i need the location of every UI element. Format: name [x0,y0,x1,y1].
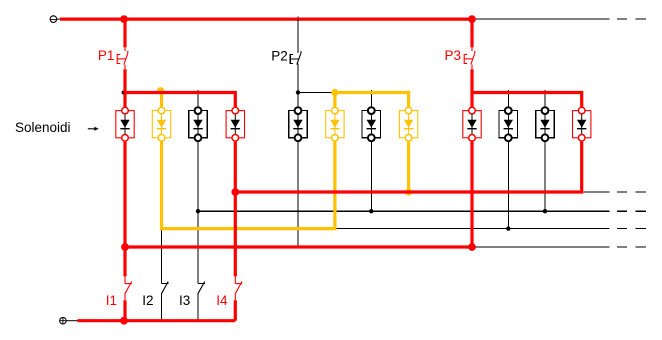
junction: top bus / P1 [120,15,128,23]
solenoid diode module D21 [289,107,307,141]
junction: row net 2 / switch I3 column [196,209,200,213]
wire: row net 4 (red) [125,245,472,248]
junction: row net 1 / module D24 (yellow) [405,188,412,195]
junction: row net 2 / module D23 [369,209,373,213]
pushbutton P1 [117,19,128,92]
wire: row net 3 drop to switch I2 [161,229,163,284]
wire: group 2 module bus highlighted segment to D24 (yellow) [335,93,409,107]
junction: row net 4 / module D31 column [468,243,476,251]
wire: module D21 top stub [297,93,299,107]
solenoid diode module D34 [573,107,591,141]
wire: module D22 top stub (yellow) [333,93,336,107]
pushbutton P2 [290,19,301,92]
svg-text:I4: I4 [216,293,228,308]
solenoid diode module D12 [152,107,170,141]
wire: row net 1 continuation right of group 3 (thin black, dashed break) [583,191,646,193]
svg-text:P3: P3 [445,48,462,63]
wire: module D33 top stub [544,90,546,107]
wire: bottom supply bus (red) [78,319,236,322]
solenoid diode module D14 [226,107,244,141]
wire: P2 to group 2 module bus [297,63,299,92]
junction: group 2 bus / module D22 (yellow) [331,89,338,96]
wire: highlighted path D12 down, row net 3, up to D22 (yellow) [162,142,335,229]
solenoid diode module D22 [326,107,344,141]
wire: top supply bus (red) [60,18,472,21]
svg-text:P2: P2 [271,48,288,63]
solenoid diode module D11 [116,107,134,141]
junction: top bus / P3 [468,15,476,23]
terminal X1 (top supply) [50,16,60,23]
arrow: Solenoidi pointer [88,127,99,131]
switch I1 [125,276,132,300]
wire: module D32 top stub [507,90,509,107]
wire: module D11 bottom column through row net 4 to switch I1 (red) [123,142,126,277]
wire: module D11 top stub (red) [123,93,126,107]
junction: row net 4 / switch I1 column [121,243,129,251]
junction: row net 2 / module D33 [543,209,547,213]
wire: module D13 top stub [197,90,199,107]
svg-text:P1: P1 [98,48,115,63]
wire: switch I2 to bottom bus [161,294,163,321]
wire: group 3 module bus with drop to D34 (red) [472,93,582,107]
wire: group 1 module bus with drop to D14 (red) [125,93,235,107]
wire: row net 2 (diode column 3 bus, thin black) [198,210,646,212]
switch I3 [198,276,205,300]
junction: bottom bus / switch I1 column [120,317,128,325]
wire: row net 1 with rise to D34 (red) [235,142,581,192]
wire: module D23 bottom column to row net 2 [370,142,372,212]
svg-text:I1: I1 [106,293,117,308]
wire: switch I3 to bottom bus [197,294,199,321]
solenoid diode module D31 [463,107,481,141]
svg-text:Solenoidi: Solenoidi [15,120,71,135]
junction: group 1 bus / module D12 (yellow) [157,87,164,94]
wire: module D12 top stub (yellow) [160,91,163,107]
svg-text:I3: I3 [179,293,190,308]
junction: row net 3 / module D32 [506,226,510,230]
junction: P2 / group 2 module bus [296,90,300,94]
wire: row net 3 continuation right of junction (thin black, dashed break) [335,228,646,230]
wire: module D31 bottom column to row net 4 (red) [470,142,473,247]
wire: module D21 bottom column to row net 4 [297,142,299,247]
wire: switch I1 to bottom bus (red) [123,300,126,320]
solenoid diode module D13 [189,107,207,141]
svg-text:I2: I2 [142,293,153,308]
pushbutton P3 [464,19,475,92]
terminal X2 (bottom supply) [60,317,78,324]
wire: row net 4 continuation right of group 3 (thin black, dashed break) [472,246,646,248]
solenoid diode module D33 [536,107,554,141]
switch I4 [235,276,242,300]
wire: module D24 bottom column to row net 1 (yellow) [407,142,410,192]
solenoid diode module D24 [399,107,417,141]
wire: top bus continuation (thin black, to dashed break) [472,18,646,20]
junction: P1 / group 1 module bus [122,91,126,95]
wire: module D31 top stub (red) [470,93,473,107]
wire: P2 branch from top bus [297,17,299,53]
wire: module D13 bottom column through row net 2 to switch I3 [197,142,199,284]
wire: module D33 bottom column to row net 2 [544,142,546,212]
wire: module D14 bottom column through row net 1 to switch I4 (red) [234,142,237,277]
wire: group 2 module bus black segment [298,92,335,94]
wire: switch I4 to bottom bus (red) [234,300,237,320]
solenoid diode module D32 [499,107,517,141]
wire: module D32 bottom column to row net 3 [507,142,509,229]
wire: module D23 top stub [370,90,372,107]
switch I2 [161,276,168,300]
junction: row net 1 / switch I4 column [231,188,239,196]
solenoid diode module D23 [362,107,380,141]
